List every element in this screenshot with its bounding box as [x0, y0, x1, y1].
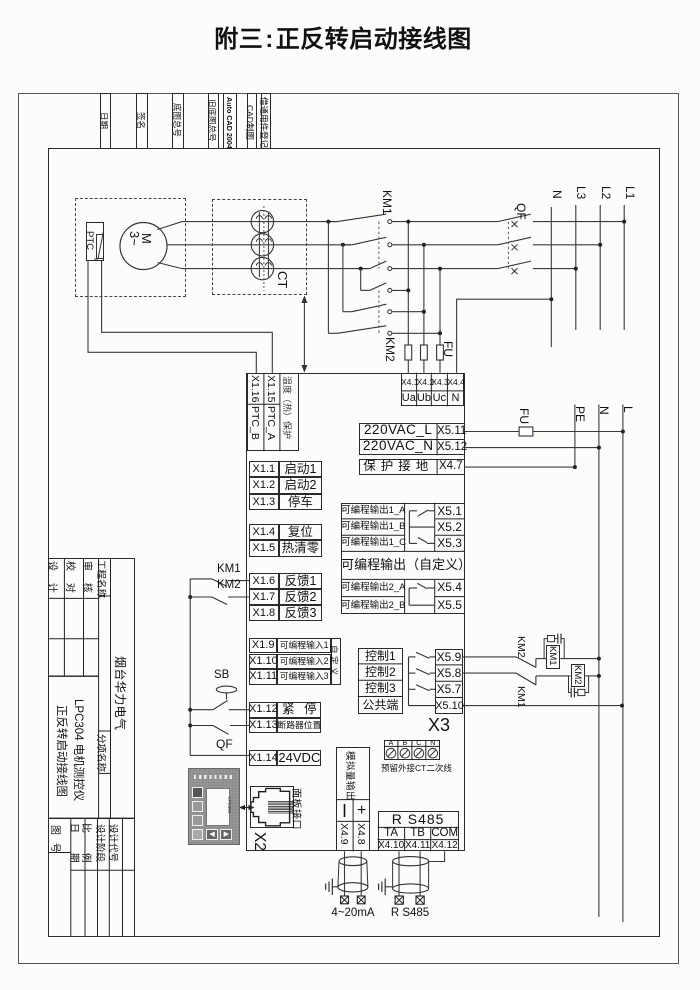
- KM1 coil: [546, 645, 560, 669]
- terminal Ua label: [401, 391, 417, 406]
- contactor KM1 contact phase C blade: [370, 261, 387, 269]
- control X5 divider 1: [435, 664, 463, 666]
- FU label at voltage fuses: [441, 341, 455, 357]
- PTC thermistor element: [94, 231, 104, 259]
- RS485 divider h1: [378, 826, 459, 828]
- pg2 row divider: [341, 596, 405, 598]
- terminal X5.2 label: [435, 519, 465, 535]
- X4 table divider v3: [446, 373, 448, 407]
- X1.12 function label 紧<span style="letter-spacing:6px"> </span>停: [277, 702, 321, 718]
- contactor KM2 contact row 1 left lead: [361, 289, 370, 291]
- terminal PTC_A label: [265, 406, 277, 440]
- X1.4 function cell: [279, 524, 323, 540]
- terminal X5.10 label: [435, 698, 463, 714]
- X1.8 function cell: [279, 605, 323, 621]
- terminal X1.2 label: [249, 477, 279, 493]
- CT strip screw terminal A: [386, 748, 396, 758]
- X1.6 function cell: [279, 573, 323, 589]
- power box divider v: [436, 423, 438, 455]
- wire PTC lead A to X1.15: [102, 261, 273, 373]
- wire KM2 row1 to Ua bus: [392, 289, 409, 291]
- terminal Uc label: [431, 391, 447, 406]
- RJ45 socket X2 outline: [250, 786, 294, 829]
- terminal X1.16 label: [249, 375, 261, 402]
- analog output table outline: [336, 747, 370, 852]
- panel link double arrow: [239, 805, 255, 810]
- wire X5.9 out: [463, 656, 516, 658]
- fuse FU phase 2: [421, 345, 428, 360]
- CT core circle phase 2: [251, 234, 273, 256]
- arrowhead up into CT box: [301, 296, 307, 304]
- terminal X4.2 label: [417, 373, 432, 391]
- title block divider h 773.4 narrow col: [99, 772, 111, 774]
- terminal X1.13 label: [249, 718, 277, 734]
- title block label 工程名称: [95, 560, 109, 598]
- QF aux label: [216, 739, 238, 750]
- PTC table divider v2: [279, 373, 281, 451]
- pg1 row divider 2b: [435, 534, 465, 536]
- pg1 row divider 1b: [435, 518, 465, 520]
- pg2 bottom line: [409, 604, 435, 606]
- CT winding loops phase 2: [256, 239, 271, 242]
- terminal X1.8 cell: [249, 605, 279, 621]
- wire X4.11 down: [419, 851, 421, 896]
- label 保护接地: [359, 459, 437, 474]
- line N right vertical: [598, 405, 600, 918]
- CT strip divider v2: [411, 740, 413, 760]
- analog plus label: [353, 800, 370, 822]
- wire CT secondary to block: [303, 298, 305, 372]
- QF aux blade: [213, 726, 229, 735]
- pg1 contact bottom lead: [427, 542, 435, 544]
- connector X2 label: [250, 832, 268, 851]
- 24V bus vertical: [189, 579, 191, 756]
- label L2: [599, 186, 613, 199]
- X1.13 function label 断路器位置: [277, 718, 321, 734]
- label 可编程输出2_A: [341, 579, 405, 596]
- junction dot L3 QF: [574, 267, 578, 271]
- control contact bus: [408, 657, 410, 706]
- label N top: [550, 190, 564, 199]
- X1.9 function label 可编程输入1: [277, 638, 331, 654]
- X1.3 function label 停车: [279, 494, 323, 510]
- junction dot KM1 coil N: [597, 657, 601, 661]
- fuse FU supply: [519, 427, 533, 436]
- contactor KM2 contact row 3 left lead: [328, 332, 337, 334]
- CT strip header C: [412, 740, 426, 747]
- title block divider h 638.7: [48, 638, 99, 640]
- QF contact C x mark: [512, 268, 518, 274]
- protective earth box: [359, 459, 464, 474]
- terminal X1.5 cell: [249, 540, 279, 556]
- terminal X4.4 label: [447, 373, 463, 391]
- label RS485 header: [378, 811, 459, 827]
- control label divider 3: [358, 696, 403, 698]
- fuse FU phase 1: [405, 345, 412, 360]
- KM2 linkage dashed: [378, 290, 380, 333]
- title block divider h 818.3: [48, 817, 135, 819]
- junction dot N tap: [549, 297, 553, 301]
- junction dot phase B / KM2 tap: [341, 243, 345, 247]
- terminal X4.11 label: [405, 840, 431, 852]
- terminal X4.12 label: [431, 840, 459, 852]
- programmable output group box: [341, 503, 465, 614]
- label 可编程输出(自定义): [341, 551, 465, 579]
- control contact 1 blade: [416, 652, 430, 658]
- CT secondary dotted centerline: [263, 206, 265, 291]
- wire KM1 C to QF: [392, 268, 498, 270]
- fuse FU phase 3: [437, 345, 444, 360]
- junction dot Uc at phase C: [438, 267, 442, 271]
- CT label: [275, 271, 290, 288]
- control contact 1 stub: [409, 656, 416, 658]
- contactor KM2 contact row 3 blade: [337, 326, 386, 334]
- header column label 日期: [98, 112, 110, 129]
- label 公共端: [358, 697, 403, 714]
- junction dot KM2 coil N: [597, 674, 601, 678]
- RJ45 pins: [268, 801, 294, 813]
- control X5 cells box: [435, 649, 463, 714]
- terminal X4.10 label: [378, 840, 405, 852]
- KM2 interlock riser: [535, 659, 537, 668]
- X1.14 function cell: [277, 750, 321, 767]
- junction dot L1 QF: [622, 220, 626, 224]
- RS485 wire terminal TA: [395, 896, 403, 904]
- wire to KM1 coil: [536, 658, 546, 660]
- label 温度(热)保护: [281, 376, 294, 439]
- junction dot phase A / KM2 tap: [326, 220, 330, 224]
- header column 底图总号: [172, 93, 184, 149]
- KM2 aux lead: [190, 596, 212, 598]
- contactor KM1 contact phase B blade: [352, 237, 386, 245]
- X1.11 function cell: [277, 669, 331, 685]
- QF contact B blade: [498, 237, 531, 245]
- KM2 snubber resistor: [578, 689, 585, 695]
- pg1 divider v labels: [404, 503, 406, 552]
- pg2 contact lead: [427, 587, 435, 589]
- label L: [621, 406, 635, 413]
- X1.1 function label 启动1: [279, 461, 323, 477]
- terminal X1.3 cell: [249, 494, 279, 510]
- terminal X1.1 cell: [249, 461, 279, 477]
- title block label 设计代号: [107, 824, 121, 862]
- wire QF C to L3: [533, 268, 576, 270]
- control contact 2 stub: [409, 672, 416, 674]
- crossover wire phase A down: [327, 222, 329, 334]
- X1.6 function label 反馈1: [279, 573, 323, 589]
- QF aux lead left: [190, 725, 213, 727]
- X1.10 function cell: [277, 654, 331, 670]
- bus Ua vertical: [407, 222, 409, 373]
- KM1 aux label: [217, 564, 243, 575]
- KM1 aux lead right: [228, 580, 249, 582]
- junction dot Ua at KM2 row1: [406, 288, 410, 292]
- bus Uc vertical: [439, 269, 441, 373]
- pg1 divider v contacts: [434, 503, 436, 552]
- header column CAD制图: [247, 93, 258, 149]
- title block outline: [48, 558, 135, 937]
- terminal N label: [447, 391, 463, 406]
- title block label 分项名称: [95, 734, 109, 772]
- title block divider h 596 narrow col: [99, 595, 111, 597]
- title block divider h 731 narrow col: [99, 730, 111, 732]
- label PE: [573, 406, 587, 422]
- KM1 interlock blade: [516, 673, 536, 685]
- title block divider h 852.5 under 图号: [48, 852, 71, 854]
- title block product LPC304电机测控仪: [71, 699, 87, 801]
- header column 日期: [100, 93, 111, 149]
- title block label 设计阶段: [94, 824, 108, 862]
- contactor KM2 contact row 1 blade: [370, 283, 387, 291]
- label 220VAC_L: [359, 423, 437, 438]
- label 面板接口: [290, 788, 305, 830]
- title block label 日期: [68, 823, 83, 863]
- header column label 签名: [135, 112, 147, 129]
- PTC label: [84, 231, 95, 250]
- motor label M 3~: [129, 231, 152, 246]
- junction dot PE X4.7: [573, 465, 577, 469]
- line L vertical: [622, 405, 624, 923]
- X4 table divider v1: [416, 373, 418, 407]
- label 220VAC_N: [359, 439, 437, 454]
- header column label CAD制图: [244, 105, 256, 140]
- analog cable shield: [338, 857, 368, 892]
- junction dot Ub at phase B: [422, 243, 426, 247]
- CT strip divider h: [384, 745, 440, 747]
- junction dot Ub at KM2 row2: [422, 310, 426, 314]
- title block divider h 676.2: [48, 675, 99, 677]
- control contact 3 stub: [409, 688, 416, 690]
- title block label 校对: [64, 561, 79, 593]
- terminal X1.10 cell: [249, 654, 277, 670]
- wire QF B to L2: [533, 244, 600, 246]
- terminal X1.10 label: [249, 654, 277, 670]
- header column 旧底图总号: [208, 93, 219, 149]
- CT secondary terminal strip: [384, 740, 440, 760]
- terminal X1.6 label: [249, 573, 279, 589]
- CT core circle phase 3: [251, 257, 273, 279]
- terminal X1.9 cell: [249, 638, 277, 654]
- title block company 烟台华力电气: [112, 656, 129, 730]
- KM2 aux label: [217, 580, 243, 591]
- wire KM2 row3 to Uc bus: [392, 332, 440, 334]
- header column Auto CAD 2004: [223, 93, 237, 149]
- CT strip screw terminal B: [400, 748, 410, 758]
- terminal X5.7 label: [435, 681, 463, 697]
- contactor KM2 contact row 3 fixed contact circle: [388, 331, 392, 335]
- pg2 divider v labels: [404, 579, 406, 613]
- label 可编程输出1_C: [341, 535, 405, 551]
- title block label 设计: [46, 561, 61, 593]
- X1.11 function label 可编程输入3: [277, 669, 331, 685]
- wire X5.12 to N: [465, 447, 599, 449]
- wire X5.10 common to L: [463, 705, 622, 707]
- pg1 contact bus: [408, 511, 410, 544]
- analog table divider h2: [336, 820, 370, 822]
- QF contact A x mark: [512, 221, 518, 227]
- wire X4.9 down: [344, 851, 346, 896]
- junction dot N X5.12: [597, 446, 601, 450]
- KM1 aux lead: [190, 578, 212, 580]
- pg1 contact top blade: [418, 510, 429, 516]
- control X5 divider 2: [435, 680, 463, 682]
- CT winding loops phase 1: [256, 216, 271, 219]
- wire phase B motor to KM1: [167, 244, 351, 246]
- PTC table divider h: [247, 403, 280, 405]
- wire X4.10 down: [398, 851, 400, 896]
- label L1: [623, 186, 637, 199]
- terminal X5.5 label: [435, 597, 465, 614]
- wire phase C motor to KM1: [158, 263, 370, 269]
- SB label: [214, 670, 236, 681]
- pg2 contact blade: [417, 583, 427, 588]
- header column label 借通用件登记: [258, 97, 270, 148]
- line L1 vertical: [623, 205, 625, 330]
- KM2 snubber capacitor: [571, 688, 574, 698]
- CT strip screw terminal C: [414, 748, 424, 758]
- power box divider h: [359, 439, 464, 441]
- title block bottom divider v 97.5: [97, 818, 99, 936]
- RJ45 socket shape: [251, 788, 290, 825]
- label 可编程输出2_B: [341, 597, 405, 614]
- KM2 label at main contacts: [383, 337, 397, 362]
- pg1 row divider 1: [341, 518, 405, 520]
- contactor KM2 contact row 1 fixed contact circle: [388, 288, 392, 292]
- pg1 contact bottom stub: [409, 542, 417, 544]
- CT dashed box: [212, 199, 307, 295]
- label 控制1: [358, 648, 403, 664]
- terminal X1.12 cell: [249, 702, 277, 718]
- contactor KM1 contact phase A fixed contact circle: [388, 220, 392, 224]
- control contact 3 blade: [416, 685, 430, 691]
- wire KM2 row2 to Ub bus: [392, 311, 424, 313]
- control contact 1 lead: [430, 656, 436, 658]
- X1.7 function label 反馈2: [279, 589, 323, 605]
- crossover wire phase B down: [342, 245, 344, 312]
- X1.3 function cell: [279, 494, 323, 510]
- contactor KM1 contact phase A left lead: [328, 221, 337, 223]
- control contact 3 lead: [430, 688, 436, 690]
- wire N to X4.4: [457, 299, 552, 373]
- terminal X4.8 label: [355, 823, 367, 845]
- wire X4.7 to PE: [465, 466, 575, 468]
- terminal X1.1 label: [249, 461, 279, 477]
- control common line: [409, 705, 436, 707]
- controller terminal block outline: [246, 373, 464, 852]
- pg2 row divider b: [435, 596, 465, 598]
- QF label: [514, 203, 528, 220]
- label 模拟量输出: [344, 751, 358, 801]
- KM1 snubber capacitor: [558, 634, 561, 644]
- X1.12 function cell: [277, 702, 321, 718]
- wire X4.12 to shield: [429, 851, 445, 861]
- QF aux lead right: [230, 725, 249, 727]
- contactor KM2 contact row 2 blade: [352, 304, 386, 312]
- terminal X1.8 label: [249, 605, 279, 621]
- RS485 cable shield: [393, 857, 429, 894]
- header column 借通用件登记: [261, 93, 272, 149]
- KM1 interlock label: [515, 686, 527, 708]
- X1.2 function label 启动2: [279, 477, 323, 493]
- protective earth divider v: [436, 459, 438, 474]
- terminal X1.9 label: [249, 638, 277, 654]
- terminal X1.12 label: [249, 702, 277, 718]
- label N right: [597, 406, 611, 415]
- junction dot Ua at phase A: [406, 220, 410, 224]
- junction dot Uc at KM2 row3: [438, 331, 442, 335]
- CT core circle phase 1: [251, 210, 273, 232]
- X1.10 function label 可编程输入2: [277, 654, 331, 670]
- pg group divider h 551.4: [341, 550, 465, 552]
- wire KM1 B to QF: [392, 244, 498, 246]
- wire KM1 A to QF: [392, 221, 498, 223]
- contactor KM2 contact row 2 left lead: [343, 311, 352, 313]
- CT strip divider v1: [397, 740, 399, 760]
- pg1 contact mid line: [409, 526, 434, 528]
- title block divider v 83.5: [83, 558, 85, 676]
- label 控制2: [358, 664, 403, 680]
- label 控制3: [358, 680, 403, 696]
- pg1 contact top lead: [428, 510, 434, 512]
- terminal X1.13 cell: [249, 718, 277, 734]
- RS485 divider v2: [430, 827, 432, 851]
- header column label 旧底图总号: [206, 99, 218, 142]
- terminal X5.12 label: [437, 440, 465, 456]
- wire phase A motor to KM1: [158, 222, 338, 230]
- control label divider 1: [358, 663, 403, 665]
- pg1 contact top stub: [409, 510, 417, 512]
- title block divider v 110.5: [110, 558, 112, 818]
- title block label 比例: [80, 823, 95, 863]
- label RS485 cable: [388, 907, 432, 919]
- title block divider h 598.4: [48, 597, 99, 599]
- junction dot SB bus: [188, 708, 192, 712]
- pg1 contact bottom blade: [418, 538, 427, 543]
- line N vertical top: [550, 207, 552, 347]
- junction dot L2 QF: [598, 243, 602, 247]
- label 自定义 inputs: [328, 645, 340, 678]
- QF contact C blade: [498, 261, 531, 269]
- junction dot KM2 aux: [188, 595, 192, 599]
- FU label supply: [517, 408, 531, 424]
- terminal X1.4 cell: [249, 524, 279, 540]
- terminal X5.3 label: [435, 535, 465, 551]
- contactor KM1 contact phase B fixed contact circle: [388, 243, 392, 247]
- CT strip header A: [384, 740, 398, 747]
- wire KM2 coil to N: [585, 675, 599, 677]
- X1.1 function cell: [279, 461, 323, 477]
- title block label 图号: [49, 825, 64, 853]
- terminal Ub label: [417, 391, 432, 406]
- label 可编程输出1_B: [341, 519, 405, 535]
- junction dot phase C / KM2 tap: [359, 267, 363, 271]
- X1.5 function label 热清零: [279, 540, 323, 556]
- crossover wire phase C down: [360, 269, 362, 291]
- CT secondary line left: [258, 212, 260, 277]
- control contact 2 blade: [416, 669, 430, 675]
- contactor KM1 contact phase A blade: [337, 214, 386, 222]
- label 预留外接CT二次线: [381, 764, 442, 773]
- KM1 snubber wire mid: [555, 638, 558, 640]
- terminal X4.7 label: [437, 459, 465, 474]
- RS485 divider h2: [378, 839, 459, 841]
- CT strip header B: [398, 740, 412, 747]
- KM2 aux lead right: [228, 596, 249, 598]
- 24V bus to X1.14: [190, 754, 249, 756]
- QF contact B x mark: [512, 244, 518, 250]
- KM2 snubber branch: [569, 676, 572, 693]
- analog table divider h1: [336, 799, 370, 801]
